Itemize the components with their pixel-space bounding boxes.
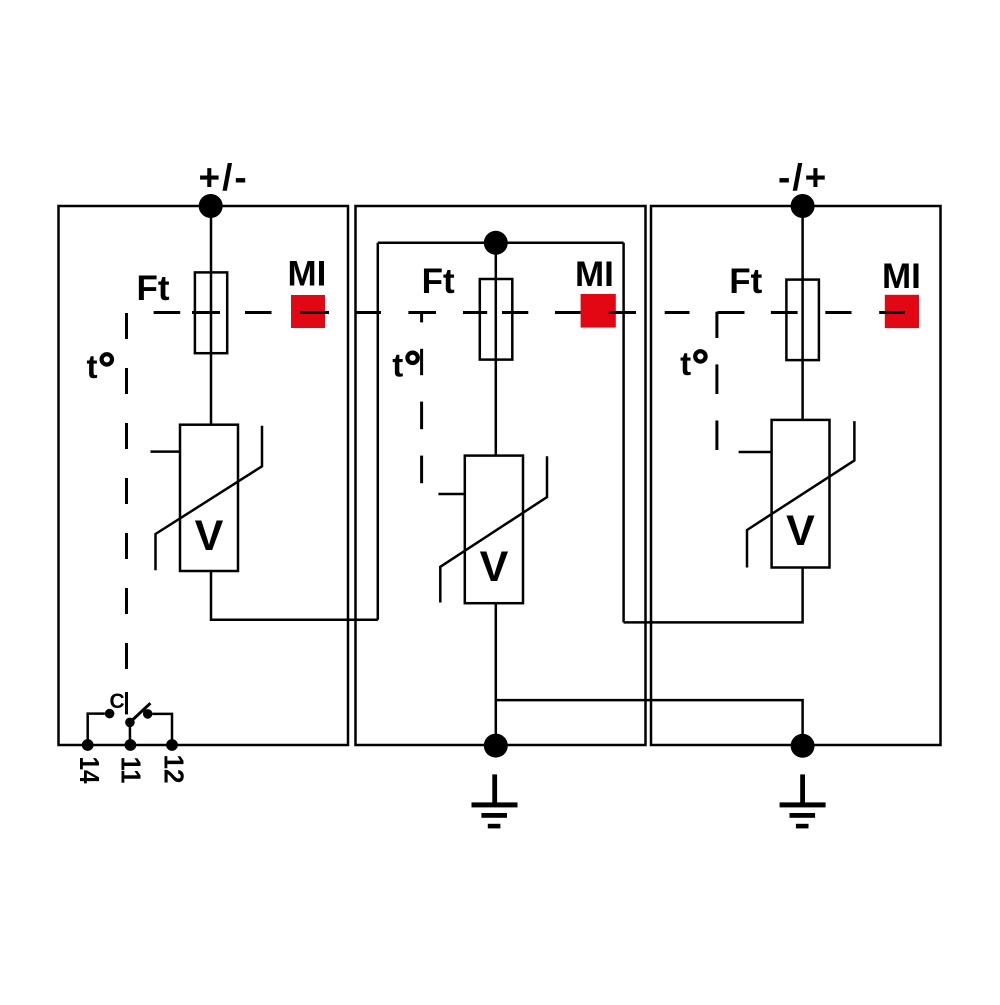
svg-text:Ft: Ft (422, 262, 455, 301)
ground symbol 3 (780, 774, 826, 828)
svg-text:+/-: +/- (199, 157, 249, 198)
svg-text:12: 12 (159, 755, 190, 784)
indicator MI red square 3 (885, 295, 919, 328)
indicator MI red square 2 (581, 294, 616, 328)
module box 2 (middle enclosure) (356, 206, 646, 745)
terminal dot 11 (124, 739, 136, 751)
svg-text:Ft: Ft (729, 262, 762, 301)
svg-text:MI: MI (288, 255, 327, 294)
varistor V1 strike line (156, 426, 263, 571)
box2 rail left vertical (377, 243, 380, 620)
terminal dot 12 (166, 739, 178, 751)
varistor V3 strike line (747, 421, 854, 567)
module box 1 (left enclosure) (59, 206, 349, 745)
svg-text:V: V (480, 543, 509, 591)
wire varistor2 bottom (495, 603, 498, 745)
dashed horizontal disconnect line (154, 311, 905, 314)
switch contact dot left (105, 709, 115, 719)
wire box3 top vertical (801, 206, 804, 420)
svg-text:t: t (680, 345, 691, 382)
svg-text:-/+: -/+ (778, 157, 828, 198)
svg-text:V: V (786, 507, 815, 555)
remote signalling switch contact lines (88, 714, 105, 745)
varistor V2 strike line (440, 456, 547, 602)
wire box1 top vertical (210, 206, 213, 425)
varistor V2 thermal tick (438, 493, 464, 496)
terminal dot 14 (82, 739, 94, 751)
dashed vertical t° line box1 (125, 313, 128, 714)
svg-text:t: t (87, 348, 98, 385)
varistor V1 thermal tick (151, 450, 181, 453)
svg-text:t: t (392, 346, 403, 383)
fuse F1 (thermal disconnect) (195, 272, 227, 353)
box2 top node (484, 231, 508, 255)
ground symbol 2 (472, 774, 518, 828)
svg-text:Ft: Ft (137, 269, 170, 308)
switch lever (130, 703, 151, 722)
node terminal 1 (+/-) (199, 194, 223, 218)
wire box2 center vertical top (495, 243, 498, 456)
indicator MI red square 1 (291, 295, 325, 328)
node box3 bottom (791, 734, 815, 758)
svg-text:11: 11 (116, 757, 147, 784)
dashed vertical t° line box2 (420, 313, 423, 483)
wire varistor1 bottom (211, 571, 378, 620)
varistor V3 body (772, 420, 830, 568)
wire branch to box3 ground (496, 700, 803, 746)
svg-text:14: 14 (74, 757, 105, 784)
svg-text:V: V (195, 512, 224, 560)
node box2 bottom (484, 734, 508, 758)
module box 3 (right enclosure) (651, 206, 941, 745)
varistor V2 body (465, 456, 523, 604)
switch contact dot right (143, 709, 153, 719)
box2 rail right vertical (622, 243, 625, 623)
fuse F3 (786, 280, 819, 361)
svg-text:MI: MI (882, 257, 921, 296)
varistor V1 body (180, 425, 238, 571)
svg-text:MI: MI (575, 255, 614, 294)
node terminal 3 (-/+) (791, 194, 815, 218)
fuse F2 (480, 279, 513, 360)
svg-text:C: C (110, 690, 125, 713)
varistor V3 thermal tick (739, 451, 772, 454)
switch pivot dot (125, 718, 135, 728)
box2 top rail horizontal (378, 242, 624, 245)
wire varistor3 bottom (624, 568, 803, 623)
dashed vertical t° line box3 (715, 312, 718, 450)
